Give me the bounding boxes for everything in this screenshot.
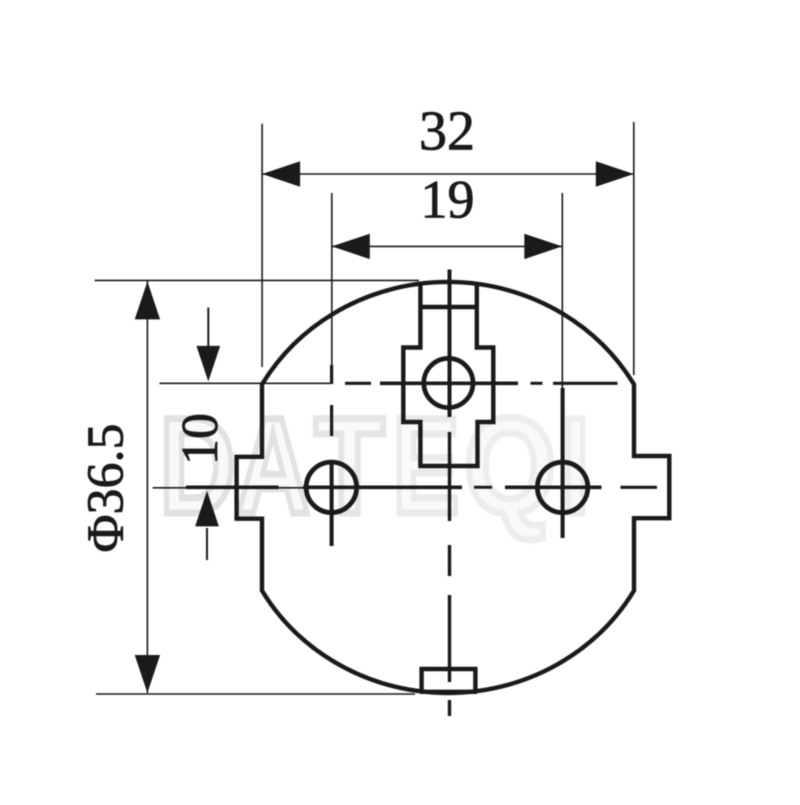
keyway rung [420, 305, 476, 309]
dimension 32: dimension line [262, 173, 634, 175]
dimension 32: arrows [262, 161, 300, 186]
dimension 10: lower arrow [206, 528, 208, 560]
dimension 10: upper arrow [207, 308, 209, 347]
dimension 32: extension lines [261, 124, 263, 367]
main outline [237, 282, 670, 693]
dimension 19: arrows [332, 234, 370, 259]
bottom tab [422, 669, 476, 692]
svg-text:32: 32 [419, 101, 475, 163]
hole left [306, 462, 356, 512]
centerline vertical main [448, 270, 452, 717]
reference line y=487 thin lead [153, 487, 306, 489]
dimension 19: extension lines [331, 193, 333, 365]
watermark DATEQI [160, 390, 590, 543]
dimension phi36.5: arrows [135, 281, 160, 319]
center earth housing (cross) [403, 284, 493, 466]
reference line y=383.5 thin lead [160, 382, 331, 384]
centerline horizontal main (through side holes) [186, 485, 657, 489]
centerline horizontal top (through top hole) [345, 382, 618, 385]
dimension 19: dimension line [332, 245, 563, 247]
centerline vertical left hole [330, 365, 333, 546]
centerline vertical right hole [561, 388, 565, 538]
hole top [424, 358, 473, 407]
dimension phi36.5: dimension line [146, 281, 148, 693]
svg-text:Φ36.5: Φ36.5 [78, 423, 135, 552]
svg-text:19: 19 [421, 170, 475, 230]
hole right [537, 462, 587, 512]
dimension phi36.5: extension lines [95, 279, 419, 281]
svg-text:10: 10 [172, 413, 229, 465]
